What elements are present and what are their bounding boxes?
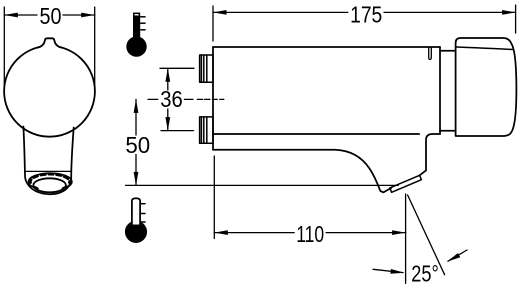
hot ticks [140, 17, 145, 30]
angle 25 vertical reference line [405, 194, 407, 283]
side view knob chamfer line [457, 47, 513, 50]
dimension 175: left extension line [212, 6, 214, 41]
arrow 50 front right [81, 13, 95, 18]
arrow 36 up [165, 68, 170, 82]
front view knurled ring [28, 173, 72, 190]
arrow 175 left [213, 10, 227, 15]
dimension 110: left extension line [213, 156, 215, 239]
text backgrounds [38, 5, 384, 244]
dimension 50 front: right extension line [94, 7, 96, 86]
arrow 25 right [447, 253, 461, 262]
arrow 50 height up [134, 99, 139, 113]
side view body top line [213, 46, 440, 48]
arrow 50 height down [134, 172, 139, 186]
svg-text:110: 110 [296, 221, 324, 247]
centerline (dash-dot) [148, 98, 229, 100]
cold ticks [140, 204, 146, 222]
dimension 50 front: left extension line [3, 7, 5, 86]
side view body left (wall) edge [212, 47, 214, 150]
front view knurl bottom marks [34, 187, 38, 189]
side view outlet ring [390, 175, 422, 192]
svg-text:25°: 25° [411, 261, 439, 287]
side view body bottom silhouette line with fillet to ledge [213, 133, 419, 135]
hot thermometer icon [126, 13, 146, 56]
side view neck bottom line [440, 130, 456, 132]
dimension texts [40, 1, 439, 286]
svg-text:175: 175 [350, 1, 382, 27]
arrow 110 left [214, 230, 228, 235]
hot stem [133, 16, 140, 43]
angle 25 slanted stream line [408, 195, 445, 275]
angle 25 left arrow shaft [373, 269, 403, 272]
dimension 50 front: dimension line [4, 14, 94, 16]
side view neck top line [440, 50, 456, 52]
dimension 36: bottom extension line [161, 130, 194, 132]
arrow 50 front left [4, 13, 17, 18]
svg-text:50: 50 [40, 3, 62, 29]
dimension 50 height: dimension line [135, 99, 137, 185]
hot stem cap [134, 13, 140, 16]
arrow 25 left [390, 269, 404, 274]
front view body circle [4, 46, 95, 137]
front view neck left side [23, 127, 25, 172]
side view spout left curve [335, 150, 391, 193]
front view neck right side [71, 128, 73, 170]
cold bulb fill [126, 224, 147, 243]
side view lower housing line [213, 149, 335, 151]
front view outlet bowl [25, 170, 71, 194]
dimension 36: top extension line [160, 67, 194, 69]
side view knob outline [456, 38, 517, 136]
side view index notch [429, 48, 432, 60]
angle 25 right arrow shaft [448, 250, 467, 261]
cold thermometer icon [126, 198, 147, 243]
front view aerator ellipse [33, 178, 66, 192]
cold stem [132, 198, 140, 224]
svg-text:36: 36 [160, 86, 183, 112]
svg-text:50: 50 [125, 132, 150, 158]
dimension 175: right extension line [515, 5, 517, 33]
bottom inlet port [200, 117, 213, 143]
top inlet port [200, 55, 213, 82]
cold bulb outline [126, 222, 147, 243]
front view top nub [38, 38, 62, 47]
arrow 36 down [165, 117, 170, 131]
outlet level reference line (50 dim) [126, 184, 399, 186]
dimension 110: dimension line [214, 232, 405, 234]
dimension 36: dimension line [167, 68, 169, 130]
front view knurl dashes [30, 174, 69, 182]
dimension 175: dimension line [213, 11, 516, 13]
arrow 175 right [502, 10, 515, 15]
side view body right edge [439, 47, 441, 134]
hot bulb [126, 36, 146, 56]
front view outlet shoulder line [25, 170, 71, 172]
side view spout right edge [420, 134, 440, 175]
arrow 110 right [392, 230, 406, 235]
